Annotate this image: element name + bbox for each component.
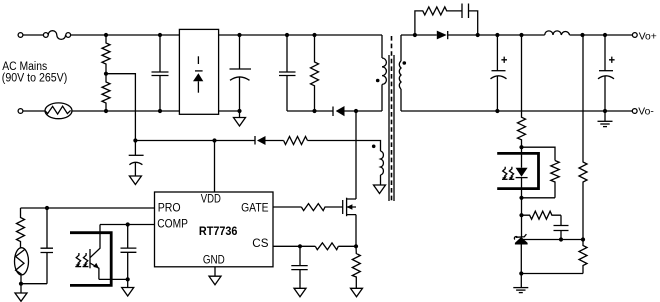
shunt regulator TL431 [514, 234, 527, 273]
terminal Vo+ [632, 33, 637, 38]
wire [23, 34, 43, 36]
op IC U1 RT7736 [155, 192, 274, 267]
wire drain [355, 111, 357, 199]
node opto top [519, 145, 523, 149]
node DC- [237, 109, 241, 113]
resistor R13 divider lower [579, 240, 587, 274]
ground aux winding [374, 185, 386, 194]
node TL431 anode [519, 271, 523, 275]
node snubber left [413, 33, 417, 37]
optocoupler U2 transistor side [70, 225, 111, 286]
node R1/R2 tap [104, 72, 108, 76]
wire top rail to bridge [71, 34, 180, 36]
node COMP cap [126, 222, 130, 226]
polarity dot aux [372, 145, 376, 149]
capacitor C7 PRO [41, 208, 54, 284]
core shield dashed [391, 36, 393, 203]
svg-text:PRO: PRO [158, 203, 181, 215]
wire [23, 110, 45, 112]
node R1 top [104, 33, 108, 37]
svg-text:COMP: COMP [157, 219, 188, 231]
svg-text:(90V to 265V): (90V to 265V) [2, 73, 68, 85]
node VDD cap [133, 138, 137, 142]
svg-text:Vo+: Vo+ [639, 32, 657, 43]
resistor R1 startup upper [102, 35, 110, 74]
resistor R7 CS [315, 243, 338, 250]
diode D2 clamp [333, 106, 345, 116]
bridge rectifier BR1 [179, 29, 218, 114]
node comp branch [519, 213, 523, 217]
capacitor C4 VDD polarized [129, 141, 144, 177]
svg-text:GND: GND [203, 255, 225, 267]
node C1 bottom [158, 109, 162, 113]
wire COMP line [100, 224, 155, 226]
core line right [393, 55, 395, 201]
inductor L1 [545, 31, 570, 35]
earth ground TL431 [513, 274, 528, 293]
node comp cap ref [559, 237, 563, 241]
ground CS cap [294, 288, 306, 297]
transistor Q1 MOSFET [343, 198, 356, 217]
node R2 bottom [104, 109, 108, 113]
node R3 top [312, 33, 316, 37]
ground COMP cap [122, 279, 134, 296]
snubber resistor [415, 7, 462, 35]
core line left [388, 55, 390, 201]
svg-text:Vo-: Vo- [638, 107, 653, 118]
ground sense resistor [351, 288, 363, 297]
wire anode bottom line [521, 273, 583, 275]
earth ground output [598, 111, 613, 127]
resistor R4 VDD [284, 137, 308, 145]
capacitor C5 output polarized [491, 35, 507, 111]
text plus C5 [501, 57, 507, 63]
wire to TL431 [521, 198, 523, 237]
resistor R12 divider upper [579, 35, 587, 240]
node VDD pin [212, 138, 216, 142]
wire parallel branch bottom [522, 197, 556, 199]
capacitor C1 input [152, 35, 169, 111]
ground IC GND [209, 276, 221, 285]
wire secondary top rail [401, 34, 632, 36]
terminal Vo- [632, 109, 637, 114]
ground bridge output [234, 111, 246, 126]
resistor R10 parallel LED [551, 161, 559, 198]
wire DC+ rail [219, 34, 382, 36]
node snubber right [476, 33, 480, 37]
wire emitter to cap [99, 278, 128, 280]
secondary winding [399, 35, 401, 111]
capacitor C9 CS [291, 246, 307, 288]
wire VDD pin [214, 141, 216, 193]
resistor R5 PRO upper [17, 208, 25, 248]
terminal AC line [18, 33, 23, 38]
wire GND pin [214, 267, 216, 276]
wire DC- stub [219, 110, 240, 112]
svg-text:CS: CS [252, 238, 269, 250]
node output cap 2 [603, 33, 607, 37]
node R3 bottom [312, 109, 316, 113]
capacitor C10 comp [554, 215, 569, 239]
resistor R3 clamp [311, 35, 319, 111]
aux winding [308, 141, 384, 186]
node divider mid [581, 237, 585, 241]
node source/CS [354, 244, 358, 248]
capacitor C8 COMP [121, 225, 137, 280]
resistor R8 sense [352, 246, 360, 288]
polarity dot primary [376, 79, 380, 83]
capacitor C6 output polarized [598, 35, 614, 111]
wire CS line [273, 245, 356, 247]
svg-text:AC Mains: AC Mains [2, 61, 47, 73]
diode D4 output [437, 31, 448, 40]
capacitor C2 bulk polarized [230, 35, 252, 111]
node CS cap [298, 244, 302, 248]
wire source [355, 215, 357, 247]
diode D3 VDD [255, 136, 266, 145]
wire GATE line [273, 206, 301, 208]
wire startup tap to VDD cap [106, 74, 135, 141]
node NTC bottom [19, 282, 23, 286]
ground PRO network [20, 284, 22, 293]
node PRO cap [45, 206, 49, 210]
node C1 top [158, 33, 162, 37]
node output cap 1 bottom [495, 109, 499, 113]
node divider tap [580, 33, 584, 37]
wire secondary bottom rail [401, 110, 632, 112]
primary winding [382, 35, 386, 111]
wire [21, 283, 47, 285]
svg-text:RT7736: RT7736 [199, 224, 238, 238]
fuse F1 [43, 31, 70, 40]
snubber capacitor [462, 4, 478, 36]
polarity dot secondary [403, 61, 407, 65]
resistor R11 comp [522, 211, 562, 219]
node output cap 1 [495, 33, 499, 37]
node opto bottom [519, 196, 523, 200]
node emitter/cap [126, 277, 130, 281]
node C3 top [285, 33, 289, 37]
wire bottom rail to bridge [71, 110, 179, 112]
ground VDD cap [129, 176, 141, 185]
svg-text:VDD: VDD [201, 193, 221, 205]
wire clamp line [287, 110, 382, 112]
wire VDD line [135, 140, 283, 142]
resistor R6 gate [301, 204, 342, 211]
terminal AC neutral [18, 109, 23, 114]
capacitor C3 clamp [279, 35, 296, 111]
wire parallel branch top [522, 147, 556, 160]
optocoupler U2 LED side [497, 147, 538, 198]
node feedback tap [519, 33, 523, 37]
resistor R9 opto feed [518, 35, 526, 147]
node drain [354, 109, 358, 113]
varistor RV1 [45, 103, 72, 119]
wire PRO line [21, 207, 155, 209]
node C2 top [237, 33, 241, 37]
node output gnd [603, 109, 607, 113]
resistor R2 startup lower [102, 74, 110, 111]
svg-text:GATE: GATE [241, 203, 269, 215]
text plus C6 [609, 57, 615, 63]
wire TL431 ref line [523, 239, 583, 241]
thermistor NTC [15, 248, 29, 284]
